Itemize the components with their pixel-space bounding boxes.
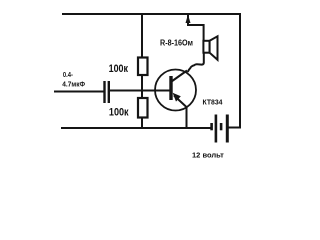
wire: top rail down to R1 [141, 14, 143, 58]
transistor Q1 emitter stroke with arrow [174, 96, 187, 108]
wire: collector squiggle up to speaker [188, 53, 204, 72]
svg-text:R-8-16Ом: R-8-16Ом [160, 38, 193, 47]
speaker SP1 cone [210, 36, 218, 60]
svg-text:12 вольт: 12 вольт [192, 151, 224, 160]
battery GB1 plates [212, 115, 228, 143]
wire: base node to R2, R2 bottom to bottom rail [141, 118, 143, 129]
svg-text:4.7мкФ: 4.7мкФ [62, 79, 85, 88]
resistor R2 100k (lower) [138, 98, 148, 118]
wire: right vertical rail with hook to battery [229, 14, 241, 128]
resistor R1 100k (upper) [138, 58, 148, 76]
speaker SP1 body [203, 41, 209, 53]
wire: R1 bottom to base node [141, 75, 143, 98]
svg-text:КТ834: КТ834 [203, 97, 224, 106]
wire: bottom horizontal rail [62, 127, 211, 129]
svg-text:100к: 100к [109, 107, 129, 119]
capacitor C1 plates [105, 81, 109, 103]
transistor Q1 KT834 circle [155, 70, 196, 111]
wire: top rail down to speaker with up arrow [188, 15, 204, 41]
svg-text:100к: 100к [109, 63, 129, 75]
svg-text:0.4-: 0.4- [63, 70, 73, 79]
transistor Q1 base bar [169, 76, 172, 100]
wire: capacitor to transistor base (node A) [110, 90, 170, 92]
wire: emitter down to bottom rail [186, 108, 188, 128]
arrow (current direction, pointing up) [186, 15, 191, 24]
transistor Q1 collector stroke [172, 71, 188, 82]
wire: top horizontal rail [63, 13, 240, 15]
label C1 value 0.4-4.7мкФ [62, 70, 85, 89]
wire: input lead into capacitor [55, 91, 104, 93]
